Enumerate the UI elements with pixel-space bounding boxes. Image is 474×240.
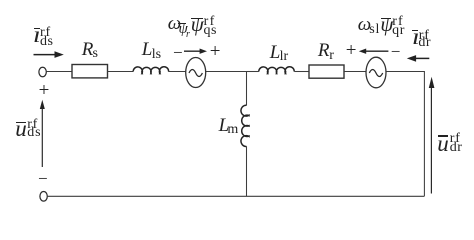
polarity plus source1 <box>210 42 221 61</box>
polarity minus source2 <box>391 43 401 60</box>
label omega-sl psi-qr source2 <box>358 15 371 34</box>
wire Rr to source2 <box>344 71 366 73</box>
current arrow ids <box>34 51 64 58</box>
label current ids <box>33 23 41 46</box>
wire Llr to Rr <box>294 71 309 73</box>
wire source2 to right corner and down <box>386 72 424 197</box>
label uds <box>15 117 27 140</box>
inductor Llr <box>259 67 294 74</box>
label current idr <box>412 25 420 48</box>
label Llr <box>270 43 281 62</box>
magnetizing branch top lead <box>246 72 248 106</box>
voltage source U1 (speed emf stator) <box>186 58 206 88</box>
node M junction <box>247 71 259 73</box>
label Rs <box>82 40 94 59</box>
magnetizing branch bottom lead <box>246 146 248 196</box>
terminal stator bottom <box>40 192 47 202</box>
wire Rs to Lls <box>108 71 134 73</box>
wire terminal to Rs <box>47 71 73 73</box>
terminal stator top <box>39 67 46 77</box>
bottom wire <box>48 195 425 197</box>
voltage arrow uds <box>40 100 45 167</box>
voltage source U2 (slip emf rotor) <box>366 57 386 88</box>
polarity minus source1 <box>173 44 183 61</box>
voltage arrow udr <box>429 77 435 194</box>
label Rr <box>318 41 330 60</box>
label Lls <box>142 40 153 59</box>
wire Lls to source1 <box>168 71 185 73</box>
inductor Lls <box>133 67 168 74</box>
inductor Lm <box>241 105 249 146</box>
resistor Rs <box>72 65 108 78</box>
minus sign uds <box>38 170 48 187</box>
plus sign uds <box>39 81 50 100</box>
current arrow idr <box>407 55 430 62</box>
label Lm <box>219 116 230 135</box>
label udr <box>437 132 449 155</box>
polarity arrow source1 <box>184 49 207 54</box>
resistor Rr <box>309 65 344 78</box>
wire source1 to node M <box>206 71 247 73</box>
polarity plus source2 <box>346 41 357 60</box>
label omega-psi-qs source1 <box>168 14 181 33</box>
polarity arrow source2 <box>359 49 389 54</box>
